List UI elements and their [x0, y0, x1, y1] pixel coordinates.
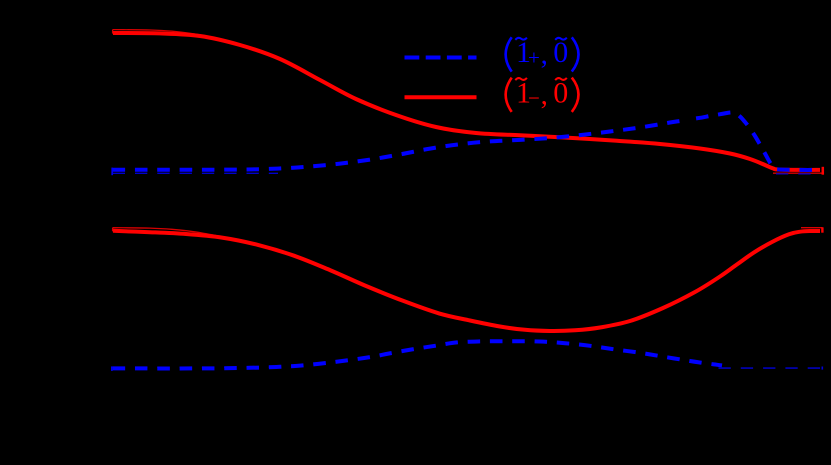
svg-text:0: 0 — [553, 36, 568, 69]
bottom panel: thin red line (left) — [113, 228, 216, 236]
top panel: red end cap — [822, 167, 825, 175]
svg-text:−: − — [528, 86, 540, 110]
top panel: thick blue dashed curve (rising part) — [113, 119, 689, 169]
bottom panel: thin red start cap — [112, 228, 114, 232]
top panel: thick red solid curve — [113, 33, 820, 170]
bottom panel: blue start cap — [111, 366, 113, 371]
legend: blue dashed sample line — [405, 56, 477, 60]
svg-text:0: 0 — [553, 76, 568, 109]
legend: red state label (1~_-, 0~) — [506, 76, 579, 112]
svg-text:,: , — [541, 39, 548, 71]
legend: blue state label (1~_+, 0~) — [506, 36, 579, 72]
bottom panel: thick blue dashed curve — [113, 341, 722, 368]
bottom panel: thin blue dashed line (right tail) — [719, 367, 824, 369]
top panel: thin red start cap — [112, 30, 114, 34]
top panel: thin red line (left, exact curve) — [113, 30, 216, 38]
bottom panel: blue end cap — [821, 367, 823, 370]
top panel: thick blue dashed curve (peak and fall) — [689, 112, 820, 170]
top panel: thin blue dashed line (right tail) — [776, 173, 820, 175]
top panel: thin blue dashed line (left) — [113, 172, 278, 174]
svg-text:,: , — [541, 79, 548, 111]
bottom panel: thin blue dashed line (left) — [113, 366, 292, 368]
top panel: thin red line (right tail) — [773, 172, 824, 174]
top panel: blue start cap — [111, 168, 113, 176]
bottom panel: thin red line (right tail) — [801, 227, 823, 229]
bottom panel: thick red solid curve — [113, 231, 820, 331]
bottom panel: red end cap — [821, 227, 823, 232]
legend: red solid sample line — [405, 95, 477, 99]
svg-text:+: + — [528, 46, 540, 70]
